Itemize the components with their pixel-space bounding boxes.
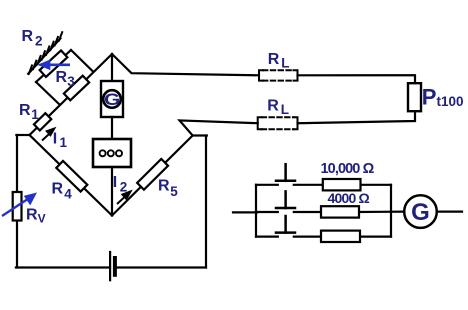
- wire: branch 1 bus to switch S1: [256, 184, 278, 186]
- battery BT1 short plate: [113, 258, 117, 275]
- resistor Pt100 body: [408, 83, 421, 111]
- resistor body (unlabeled): [321, 231, 360, 242]
- wire: Pt100 bottom to RL2: [298, 111, 416, 123]
- wire: G2 to right: [437, 211, 462, 213]
- galvanometer U1 box: [101, 81, 123, 117]
- decade box: left bus: [255, 185, 257, 237]
- galvanometer G2 circle: [404, 195, 437, 228]
- svg-text:P: P: [422, 85, 437, 110]
- wire: parallel branch upper A-B (carries R2): [36, 50, 71, 82]
- wire: left link from node L to left rail: [16, 134, 29, 136]
- wire: right rail: [205, 136, 207, 268]
- wire terminal box to Bm: [111, 167, 113, 216]
- galvanometer branch wire T to G box: [111, 54, 113, 82]
- svg-text:G: G: [411, 199, 430, 226]
- wire: branch 2 bus to switch S2: [256, 211, 278, 213]
- wire: RL1 to Pt100 top: [298, 75, 416, 84]
- wire: parallel branch side A-D: [36, 82, 60, 105]
- wire: switch S3 to resistor: [294, 236, 321, 238]
- decade box: right bus: [390, 185, 392, 237]
- svg-text:2: 2: [35, 33, 43, 48]
- svg-text:R: R: [158, 178, 170, 195]
- wire: T apex to top lead: [112, 54, 259, 75]
- wire: branch 3 bus to switch S3: [256, 236, 278, 238]
- battery BT1 long plate: [109, 252, 111, 280]
- svg-text:5: 5: [170, 184, 178, 199]
- svg-text:R: R: [268, 51, 280, 68]
- svg-text:R: R: [267, 98, 279, 115]
- resistor R5 body: [137, 159, 168, 190]
- variable resistor Rv body: [13, 192, 22, 221]
- wire: bridge arm L to Bm (diagonal, carries R4): [30, 135, 113, 216]
- svg-text:V: V: [38, 212, 46, 226]
- wire: parallel branch side B-C: [71, 50, 93, 72]
- svg-text:R: R: [52, 181, 64, 198]
- terminal box circle 2: [108, 150, 114, 156]
- terminal box circle 3: [116, 150, 122, 156]
- resistor 10000 ohm body: [323, 179, 361, 190]
- svg-text:4: 4: [64, 186, 72, 201]
- wire G box to terminal box: [111, 117, 113, 140]
- svg-text:3: 3: [67, 74, 75, 89]
- switch S3: [276, 216, 295, 233]
- svg-text:R: R: [26, 207, 38, 224]
- wire: left rail lower segment: [16, 220, 18, 268]
- terminal box (ooo): [93, 139, 131, 167]
- wire: resistor to right bus (branch 3): [360, 236, 391, 238]
- switch S1: [276, 164, 295, 181]
- svg-text:R: R: [22, 28, 34, 45]
- svg-text:2: 2: [120, 180, 128, 195]
- resistor R1 body: [34, 113, 51, 130]
- wire: RL2 to node R: [180, 120, 258, 135]
- svg-text:4000 Ω: 4000 Ω: [328, 190, 370, 206]
- resistor R2 body: [40, 50, 68, 77]
- decade box: input lead: [233, 211, 257, 213]
- galvanometer U1 circle: [103, 90, 121, 108]
- svg-text:10,000 Ω: 10,000 Ω: [321, 161, 375, 177]
- wire: bottom rail right of battery: [115, 266, 206, 268]
- resistor 4000 ohm body: [321, 206, 359, 217]
- wire: switch S2 to resistor: [294, 211, 321, 213]
- wiper arrow of R2 (blue): [40, 61, 70, 68]
- svg-text:1: 1: [31, 107, 39, 122]
- wiper arrow of Rv (blue): [2, 194, 35, 216]
- slide track of R2 (hatched): [28, 38, 60, 73]
- svg-text:L: L: [281, 55, 289, 70]
- svg-text:I: I: [113, 174, 117, 191]
- lead resistor RL1 (dashed box): [259, 70, 298, 80]
- resistor R4 body: [56, 161, 87, 192]
- svg-text:L: L: [281, 102, 289, 117]
- svg-text:R: R: [19, 102, 31, 119]
- wire: resistor to right bus (branch 1): [361, 184, 392, 186]
- lead resistor RL2 (dashed box): [258, 117, 298, 129]
- current arrow I2: [117, 192, 131, 205]
- resistor R3 body: [64, 76, 89, 101]
- svg-text:R: R: [56, 69, 68, 86]
- terminal box circle 1: [100, 150, 106, 156]
- wire: bridge arm L to T (diagonal, carries R1 and R3): [30, 54, 113, 135]
- svg-text:G: G: [104, 91, 120, 110]
- wire: bridge arm Bm to R (diagonal, carries R5): [112, 136, 193, 216]
- svg-text:I: I: [53, 131, 57, 148]
- wire: bottom rail left of battery: [16, 266, 110, 268]
- wire: left rail upper segment: [16, 135, 18, 193]
- wire: right link from node R to right rail: [193, 134, 207, 136]
- switch S2: [276, 191, 295, 208]
- current arrow I1: [42, 129, 54, 141]
- wire: resistor to galvanometer G2 (branch 2): [359, 211, 404, 214]
- svg-text:1: 1: [60, 135, 68, 150]
- svg-text:t100: t100: [437, 94, 464, 109]
- wire: switch S1 to resistor: [294, 184, 323, 186]
